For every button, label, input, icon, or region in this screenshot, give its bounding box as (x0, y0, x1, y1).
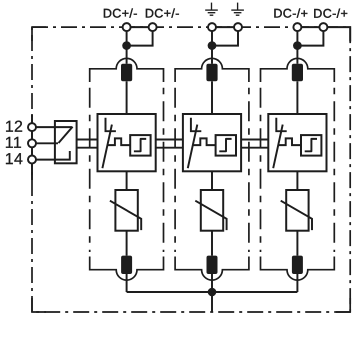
svg-text:DC-/+: DC-/+ (313, 7, 348, 21)
svg-text:14: 14 (5, 151, 23, 168)
svg-text:12: 12 (5, 119, 23, 136)
svg-text:DC+/-: DC+/- (103, 6, 138, 20)
svg-text:11: 11 (5, 135, 22, 152)
svg-text:DC-/+: DC-/+ (273, 7, 308, 21)
svg-text:DC+/-: DC+/- (145, 6, 180, 20)
